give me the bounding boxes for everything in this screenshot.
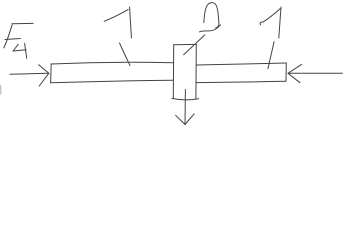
label 1 (right) xyxy=(260,7,281,38)
force arrow right (pointing left into bar) xyxy=(288,64,343,82)
leader line label 1 right xyxy=(268,42,274,69)
member 1 left bar xyxy=(51,62,174,83)
leader line label 1 left xyxy=(120,43,131,66)
label 2 xyxy=(199,3,220,32)
block 2 (middle block) xyxy=(172,44,199,99)
force arrow down (reaction below block) xyxy=(176,90,195,125)
scan artifact at left edge xyxy=(0,86,2,95)
member 1 right bar xyxy=(196,63,286,83)
label 1 (left) xyxy=(104,7,131,38)
force arrow left (F_A, pointing right into bar) xyxy=(10,65,49,86)
label F_A (applied force label) xyxy=(4,23,33,58)
leader line label 2 xyxy=(184,35,205,55)
